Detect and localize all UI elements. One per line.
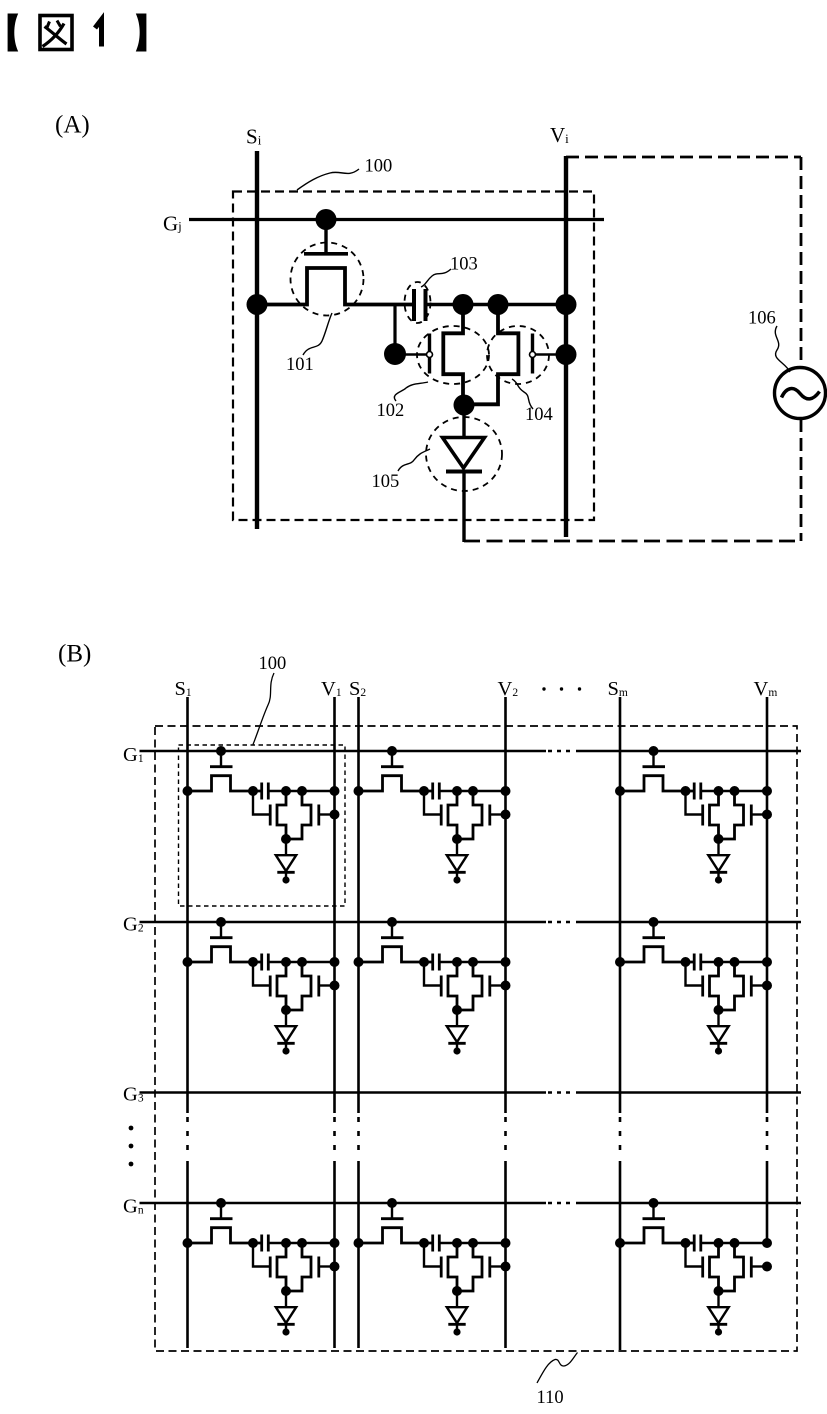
label Vm [754,678,778,700]
leader 100 array [253,673,274,745]
svg-text:Sm: Sm [608,678,628,700]
pixel cell row2 col1 [183,917,340,1055]
svg-text:Gj: Gj [163,212,182,236]
svg-text:G3: G3 [123,1084,144,1106]
leader 104 [512,379,533,409]
pixel cell row1 col2 [354,746,511,884]
dashed circle transistor 102 [417,326,489,384]
svg-text:(B): (B) [58,641,91,668]
svg-text:110: 110 [537,1388,564,1408]
title bracket left 【 [8,14,19,52]
dashed box 100 first pixel [179,745,346,906]
wire G2 row [140,921,802,924]
svg-text:105: 105 [372,472,400,492]
wire Vi column line [564,156,568,537]
capacitor 103 plates [414,289,426,321]
pixel cell rown col3 [615,1198,772,1336]
svg-text:S2: S2 [349,678,366,700]
label V2 [498,678,519,700]
pixel cell rown col2 [354,1198,511,1336]
wire capacitor to node [426,303,567,306]
junction dot Gj gate [316,209,337,230]
transistor 102 gate bar [428,334,431,374]
label Gj [163,212,182,236]
diode 105 cathode bar [446,470,482,474]
svg-text:104: 104 [525,405,553,425]
column line ellipsis breaks [188,1117,768,1157]
label S1 [175,678,192,700]
label V1 [321,678,342,700]
pixel cell row1 col3 [615,746,772,884]
svg-text:103: 103 [450,255,478,275]
label Vi [550,123,569,147]
svg-text:106: 106 [748,309,776,329]
wire S2 column [357,697,360,1348]
transistor 101 gate bar [304,252,348,256]
svg-text:(A): (A) [55,112,90,139]
diode 105 cathode wire [462,472,465,543]
junction dot Vi top [556,294,577,315]
junction dot Si source [247,294,268,315]
leader 103 [421,269,451,287]
label G1 [123,744,144,766]
dashed circle transistor 101 [291,243,364,316]
svg-text:100: 100 [365,157,393,177]
leader 101 [303,313,332,355]
label G3 [123,1084,144,1106]
svg-text:Si: Si [246,125,262,149]
junction dot Vi select gate [556,344,577,365]
outer dashed bias loop top [566,156,801,159]
svg-text:101: 101 [286,355,314,375]
dashed box 100 pixel boundary [233,192,594,521]
diode 105 anode stem [462,405,465,437]
leader 102 [394,382,428,401]
outer dashed bias loop right upper [800,157,803,367]
junction dot node right [488,294,509,315]
svg-text:S1: S1 [175,678,192,700]
label 100 [365,157,393,177]
wire drop to amp gate node [393,305,396,349]
junction dot node left [453,294,474,315]
leader 105 [398,449,430,471]
transistor 104 gate contact circle [530,352,536,358]
transistor 104 gate bar [531,334,534,374]
wire Vm column [766,697,769,1243]
label 106 [748,309,776,329]
wire gate node to transistor 102 gate [395,353,430,356]
label row ellipsis vertical [129,1126,134,1167]
label 100 array [259,654,287,674]
dashed ellipse capacitor 103 [405,282,431,323]
svg-text:G1: G1 [123,744,144,766]
svg-text:Vm: Vm [754,678,778,700]
junction dot diode anode [454,395,475,416]
svg-text:V2: V2 [498,678,519,700]
G row ellipsis dashes [548,751,575,1203]
diode 105 triangle [443,438,485,469]
label column ellipsis [542,687,581,690]
node dot amp gate left [384,343,406,365]
outer dashed bias loop bottom [464,540,801,543]
label (B) [58,641,91,668]
wire V2 column [504,697,507,1348]
AC source 106 [775,368,826,419]
svg-text:Gn: Gn [123,1196,144,1218]
svg-text:Vi: Vi [550,123,569,147]
pixel cell row2 col2 [354,917,511,1055]
dashed circle transistor 104 [487,326,549,384]
transistor 104 channel [463,305,518,405]
label 103 [450,255,478,275]
wire G1 row [140,750,802,753]
dashed box 110 array boundary [155,726,797,1351]
wire Gj row line [189,218,604,221]
transistor 102 gate contact circle [427,352,433,358]
transistor 101 channel and source/drain wire [257,268,414,305]
wire G3 row [140,1091,802,1094]
label 101 [286,355,314,375]
label Gn [123,1196,144,1218]
wire Si column line [255,151,259,529]
title digit 1 [95,20,102,47]
pixel cell rown col1 [183,1198,340,1336]
label (A) [55,112,90,139]
label Sm [608,678,628,700]
wire transistor 104 gate to Vi [533,353,567,356]
svg-text:V1: V1 [321,678,342,700]
dashed circle diode 105 [426,417,502,491]
label Si [246,125,262,149]
label 110 [537,1388,564,1408]
outer dashed bias loop right lower [800,419,803,541]
wire Gn row [140,1202,802,1205]
transistor 102 channel [443,305,463,406]
label 102 [377,401,405,421]
transistor 101 gate stem [324,220,327,253]
leader 100 [297,169,359,190]
title bracket right 】 [136,14,147,52]
svg-text:G2: G2 [123,914,144,936]
wire Sm column [619,697,622,1350]
svg-text:100: 100 [259,654,287,674]
label 105 [372,472,400,492]
label 104 [525,405,553,425]
leader 110 [537,1353,578,1384]
label S2 [349,678,366,700]
wire V1 column [333,697,336,1348]
wire S1 column [186,697,189,1348]
pixel cell row1 col1 [183,746,340,884]
svg-text:102: 102 [377,401,405,421]
label G2 [123,914,144,936]
leader 106 [775,326,790,372]
pixel cell row2 col3 [615,917,772,1055]
title kanji 図 [40,16,72,50]
